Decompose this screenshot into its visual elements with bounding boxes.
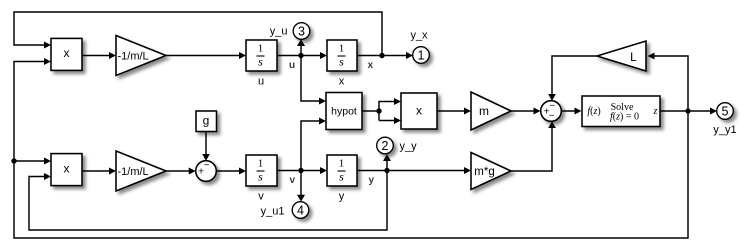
integrator V "1/s" (v) (246, 155, 277, 186)
gain MG "m*g" (471, 153, 511, 190)
outport 4 (y_u1) (292, 202, 309, 219)
svg-text:1: 1 (339, 43, 345, 55)
label: y_u (270, 25, 288, 37)
svg-text:s: s (258, 55, 263, 69)
wire: v branch down to outport 4 (297, 171, 305, 202)
wire: Solve out to outport 5 with node Z (660, 108, 717, 115)
svg-text:v: v (258, 191, 264, 203)
svg-text:s: s (339, 170, 344, 184)
svg-text:g: g (203, 113, 210, 127)
svg-text:f(z) = 0: f(z) = 0 (610, 112, 639, 123)
wire: node Z up to gain L input (648, 53, 689, 112)
svg-text:u: u (289, 60, 295, 71)
label: y_u1 (261, 206, 285, 218)
svg-text:y: y (339, 191, 345, 203)
svg-text:z: z (653, 106, 658, 117)
wire: m*g out to sum S1 bottom input (511, 121, 556, 171)
wire: g down to sum S2 top input (202, 132, 210, 161)
svg-text:x: x (64, 46, 70, 60)
outport 3 (y_u) (293, 23, 310, 40)
product P3 "x" (square) (401, 93, 437, 129)
algebraic constraint block "Solve f(z)=0" (582, 96, 660, 127)
wire: G1 out to integrator u (166, 52, 246, 59)
label: signal v (290, 175, 296, 186)
product P1 "x" (top multiplier) (51, 38, 82, 70)
wire: hypot out fanned to product P3 both inputs (362, 98, 401, 124)
node: z branch junction on left rail (11, 158, 51, 165)
svg-text:x: x (416, 104, 422, 118)
svg-text:m: m (479, 104, 489, 118)
svg-text:s: s (339, 55, 344, 69)
wire: G2 out to sum S2 (166, 168, 196, 175)
wire: v branch up to hypot input 2 (301, 118, 326, 171)
gain G2 "-1/m/L" (bottom) (116, 151, 166, 191)
outport 1 (y_x) (413, 47, 430, 64)
svg-text:hypot: hypot (331, 105, 357, 117)
svg-text:1: 1 (418, 49, 425, 63)
hypot block (326, 93, 362, 130)
label: block name u (258, 76, 264, 88)
wire: x signal to outport 1 with junction (357, 52, 413, 59)
svg-text:3: 3 (298, 25, 305, 39)
svg-text:L: L (630, 50, 637, 64)
integrator X "1/s" (x) (327, 40, 357, 71)
wire: gain L out to sum S1 top input (548, 56, 597, 101)
wire: v signal to integrator y with junction (277, 167, 327, 174)
svg-text:y_x: y_x (410, 30, 428, 42)
label: y_y (400, 140, 418, 152)
wire: P2 out to gain G2 (82, 168, 116, 175)
svg-text:x: x (339, 76, 345, 88)
sum S1 (+ - -) (541, 101, 562, 122)
svg-text:−: − (549, 111, 555, 122)
svg-text:y: y (369, 175, 375, 186)
svg-text:f(z): f(z) (587, 106, 600, 117)
wire: S2 out to integrator v (216, 168, 246, 175)
svg-text:y_y1: y_y1 (713, 124, 736, 136)
svg-text:2: 2 (382, 139, 389, 153)
label: y_y1 (713, 124, 736, 136)
svg-text:m*g: m*g (474, 166, 494, 178)
integrator Y "1/s" (y) (327, 155, 357, 186)
wire: S1 out to Solve block (561, 108, 581, 115)
svg-text:1: 1 (339, 158, 345, 170)
wire: y feedback (inner loop) from node after integrator y to product P2 input 2 (29, 171, 387, 231)
label: y_x (410, 30, 428, 42)
label: signal u (289, 60, 295, 71)
constant g block (196, 111, 217, 132)
svg-text:5: 5 (722, 105, 729, 119)
integrator U "1/s" (u) (246, 40, 277, 71)
label: signal x (368, 60, 374, 71)
svg-text:1: 1 (258, 158, 264, 170)
gain L (points left) (597, 41, 646, 71)
wire: y signal to gain m*g with junction (357, 167, 471, 174)
svg-text:y_y: y_y (400, 140, 418, 152)
label: signal y (369, 175, 375, 186)
svg-text:-1/m/L: -1/m/L (118, 51, 149, 63)
wire: u branch down to hypot input 1 (301, 56, 326, 105)
svg-text:4: 4 (297, 204, 304, 218)
wire: P1 out to gain G1 (82, 52, 116, 59)
label: block name y (339, 191, 345, 203)
gain M "m" (471, 92, 511, 130)
label: block name v (258, 191, 264, 203)
wire: u signal to integrator x with junction (277, 52, 327, 59)
outport 2 (y_y) (377, 137, 394, 154)
product P2 "x" (bottom multiplier) (51, 154, 82, 186)
wire: P3 out to gain m (437, 108, 471, 115)
svg-text:v: v (290, 175, 296, 186)
gain G1 "-1/m/L" (top) (116, 36, 166, 76)
sum S2 (+ -) (196, 160, 217, 181)
wire: x feedback from node after integrator x to product P1 input 1 (14, 12, 382, 56)
svg-text:y_u: y_u (270, 25, 288, 37)
wire: y branch up to outport 2 (383, 154, 391, 170)
svg-text:−: − (204, 160, 210, 171)
svg-text:x: x (368, 60, 374, 71)
label: block name x (339, 76, 345, 88)
wire: z tension feedback (outer loop) from node Z down and left to products (14, 58, 688, 238)
svg-text:y_u1: y_u1 (261, 206, 285, 218)
svg-text:1: 1 (258, 43, 264, 55)
svg-text:u: u (258, 76, 264, 88)
svg-text:s: s (258, 170, 263, 184)
outport 5 (y_y1) (717, 103, 734, 120)
svg-text:-1/m/L: -1/m/L (118, 166, 149, 178)
wire: gain m to sum S1 (511, 108, 541, 115)
wire: u branch up to outport 3 (297, 39, 305, 55)
svg-text:x: x (64, 161, 70, 175)
